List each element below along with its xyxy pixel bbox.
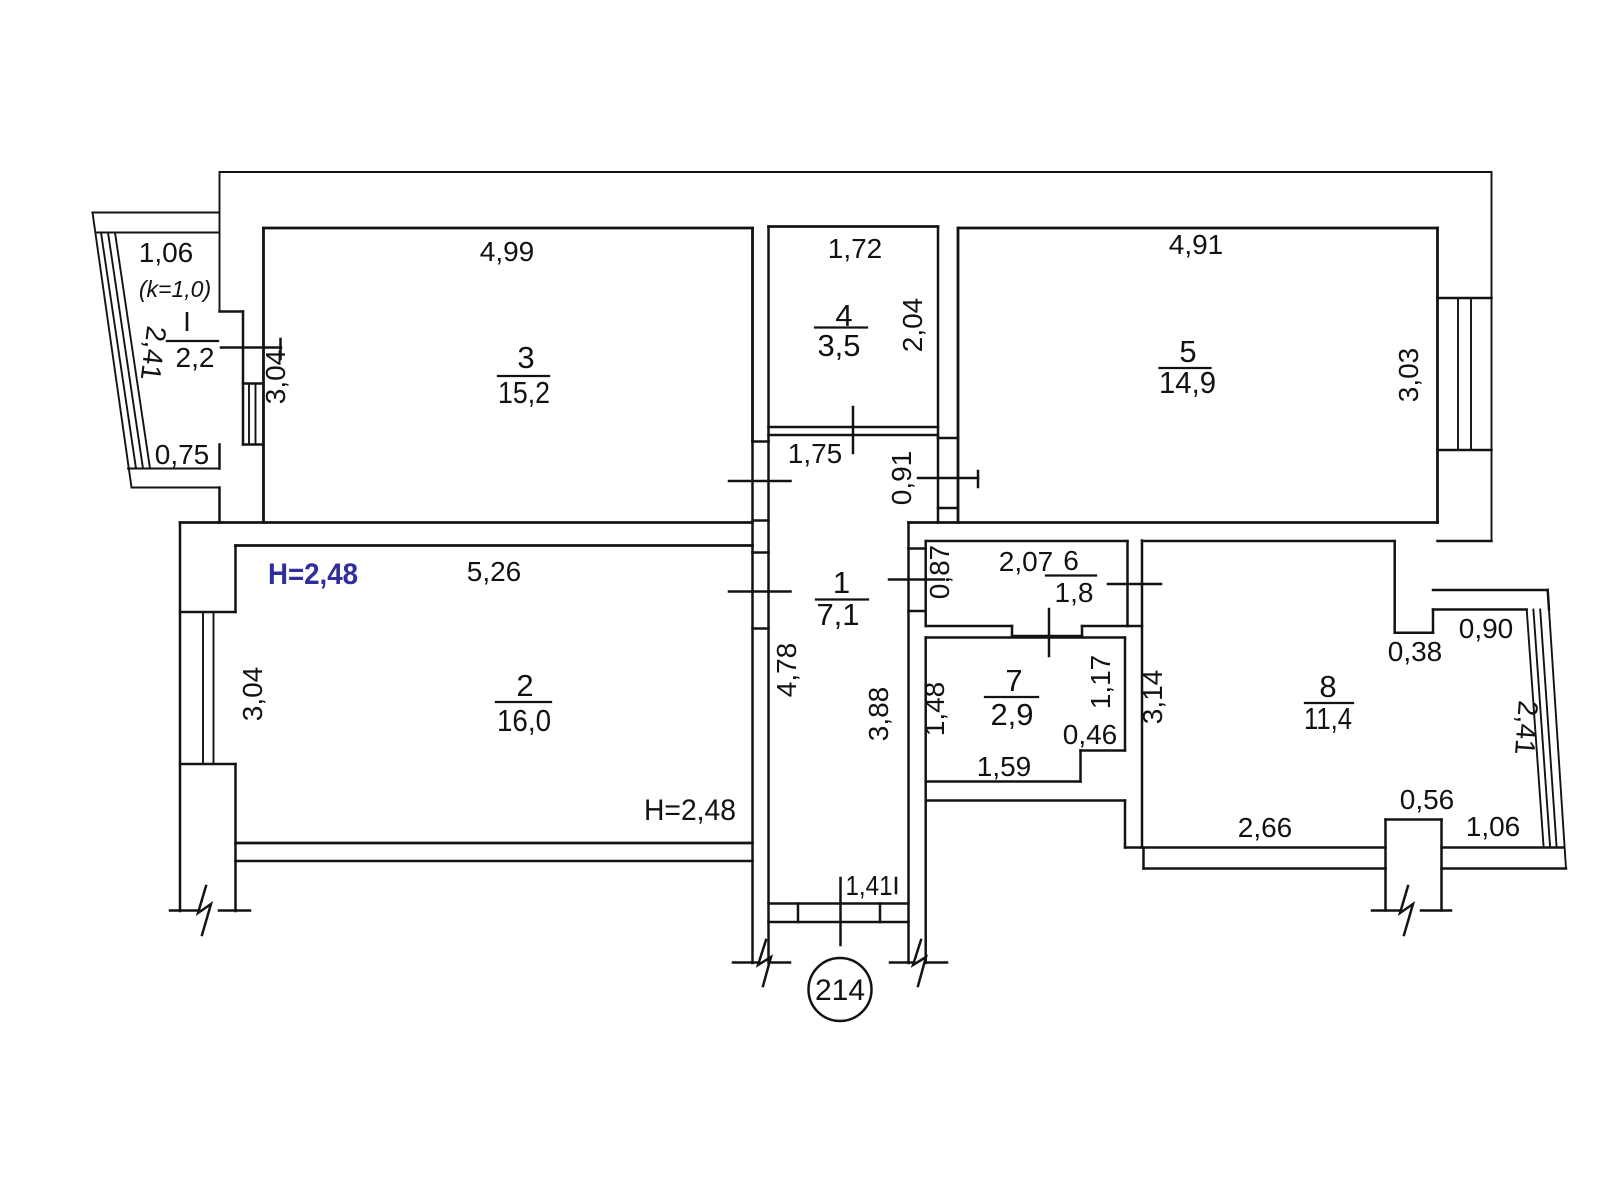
- wire wall x938 door D5 side: [937, 438, 940, 523]
- wire room7 notch top: [1081, 749, 1126, 752]
- svg-text:4,91: 4,91: [1169, 229, 1224, 260]
- svg-text:7: 7: [1005, 663, 1022, 698]
- wire corridor bottom wall upper line: [769, 902, 909, 905]
- svg-text:4,78: 4,78: [771, 643, 802, 698]
- wire room7 fraction bar: [985, 696, 1038, 698]
- wire door D4 tick: [852, 407, 855, 453]
- wire room8 bottom band lower right: [1442, 867, 1567, 870]
- wire room7 left wall and below: [924, 638, 927, 964]
- svg-text:I: I: [183, 306, 191, 337]
- wire wall x768 door D2 side: [767, 442, 770, 553]
- svg-text:0,46: 0,46: [1063, 719, 1118, 750]
- svg-text:1,8: 1,8: [1055, 577, 1094, 608]
- wire window W2 bottom sill: [180, 763, 236, 766]
- wire window W5 top sill: [1438, 297, 1492, 300]
- node balcony I (upper-left): [93, 213, 220, 488]
- wire room8 fraction bar: [1305, 702, 1353, 704]
- wire room2 fraction bar: [496, 701, 551, 703]
- svg-text:5: 5: [1179, 334, 1196, 369]
- svg-text:0,56: 0,56: [1400, 784, 1455, 815]
- wire window W5 glazing 2: [1470, 298, 1472, 450]
- wire balcony top inner line: [97, 232, 220, 234]
- svg-text:1: 1: [833, 565, 850, 600]
- svg-text:3,04: 3,04: [260, 350, 291, 405]
- node room8 and duct: [1108, 541, 1566, 936]
- wire break zigzag bottom-left: [198, 886, 211, 935]
- wire room4 bottom partition lower line: [769, 434, 939, 437]
- wire corridor right wall: [907, 523, 910, 964]
- wire window W1 glazing 2: [255, 384, 257, 445]
- wire window W2 glazing 1: [202, 612, 204, 764]
- wire left outer wall low: [218, 488, 221, 523]
- wire entrance door tick: [839, 878, 842, 945]
- wire room8 bottom band left closure: [1142, 848, 1145, 869]
- wire room6 bottom recess right: [1081, 626, 1084, 636]
- svg-text:1,48: 1,48: [919, 682, 950, 737]
- svg-text:1,06: 1,06: [1466, 811, 1521, 842]
- node balcony door and window in left wall: [220, 312, 282, 445]
- wire room8 bottom wall right segment: [1442, 846, 1564, 849]
- svg-text:2,41: 2,41: [135, 324, 172, 382]
- wire room6 right wall: [1126, 541, 1129, 626]
- wire room6 bottom recess left: [1011, 626, 1014, 636]
- wire top outer wall: [220, 171, 1492, 173]
- wire door D8 tick: [1048, 609, 1051, 656]
- wire window W1 glazing 1: [248, 384, 250, 445]
- wire door D5 jamb top: [938, 437, 958, 440]
- svg-text:3,03: 3,03: [1393, 348, 1424, 403]
- wire room2 bottom wall: [236, 842, 753, 845]
- wire balcony door tick: [221, 346, 281, 349]
- wire room5 left wall: [957, 228, 960, 523]
- wire left outer wall upper: [219, 172, 221, 312]
- svg-text:2,41: 2,41: [1509, 699, 1544, 756]
- wire wall x752 door D3 side and lower: [751, 553, 754, 964]
- svg-text:3,88: 3,88: [863, 687, 894, 742]
- svg-text:2: 2: [516, 668, 533, 703]
- wire window W1 bottom sill: [243, 443, 263, 446]
- wire right balcony band top: [1433, 589, 1548, 592]
- wire corridor bottom wall lower line: [769, 921, 909, 924]
- wire right balcony band bottom: [1433, 608, 1527, 611]
- wire entrance door jamb left: [797, 904, 800, 923]
- svg-text:H=2,48: H=2,48: [268, 558, 358, 591]
- wire vestibule bottom line: [909, 610, 926, 613]
- wire room6 top wall: [926, 540, 1128, 543]
- wire room4 right wall: [937, 228, 940, 438]
- wire balcony glazing line 1: [101, 233, 136, 469]
- svg-text:0,87: 0,87: [924, 545, 955, 600]
- svg-text:3,5: 3,5: [817, 328, 860, 363]
- wire duct bottom: [1395, 631, 1433, 634]
- wire balcony top outer line: [93, 212, 220, 214]
- wire room8 bottom band lower left: [1144, 867, 1386, 870]
- svg-text:2,9: 2,9: [990, 697, 1033, 732]
- wire room2 bottom wall lower line: [236, 860, 753, 863]
- wire window W5 glazing 1: [1457, 298, 1459, 450]
- wire right balcony glazing 1: [1527, 610, 1544, 846]
- wire window W2 glazing 2: [213, 612, 215, 764]
- wire door D5 tick: [918, 477, 978, 480]
- wire room7 notch left: [1079, 751, 1082, 782]
- wire room6 fraction bar: [1046, 574, 1096, 576]
- wire door D2 tick: [729, 480, 791, 483]
- wire wall line below room7: [926, 799, 1125, 802]
- node room5 and door D5: [909, 228, 1492, 523]
- wire room2 left wall upper: [234, 546, 237, 613]
- wire balcony door tick end serif: [279, 339, 282, 359]
- node corridor 1 lower part and entrance: [733, 523, 947, 1022]
- wire break zigzag bottom-right: [1400, 886, 1413, 935]
- wire room6 bottom recess line: [1012, 635, 1082, 638]
- wire room8 bottom wall left segment: [1125, 846, 1386, 849]
- wire door D3 jamb bottom: [753, 627, 769, 630]
- svg-text:0,90: 0,90: [1459, 613, 1514, 644]
- wire room3 fraction bar: [498, 375, 549, 377]
- wire chimney notch top: [1386, 818, 1442, 821]
- wire right balcony glazing 2: [1533, 610, 1550, 846]
- node apartment number circle 214: [809, 958, 872, 1021]
- wire door jamb vertical: [242, 312, 245, 445]
- wire room4 top wall: [769, 225, 939, 228]
- wire balcony bottom inner line: [128, 468, 220, 470]
- svg-text:2,2: 2,2: [176, 342, 215, 373]
- svg-text:16,0: 16,0: [497, 703, 551, 738]
- wire room4 bottom partition upper line: [769, 426, 939, 429]
- wire door D6 tick: [889, 578, 944, 581]
- svg-text:4,99: 4,99: [480, 236, 535, 267]
- node room4: [769, 228, 939, 453]
- wire chimney notch right: [1440, 820, 1443, 911]
- svg-text:1,41: 1,41: [846, 870, 893, 901]
- wire chimney notch left: [1384, 820, 1387, 911]
- wire room6 bottom wall right part: [1082, 625, 1128, 628]
- wire left outer wall lower: [179, 523, 182, 912]
- wire break zigzag stair right: [913, 940, 926, 986]
- wire door D2 jamb top: [753, 440, 769, 443]
- wire room5 top wall: [958, 227, 1438, 230]
- svg-text:1,72: 1,72: [828, 233, 883, 264]
- wire step down to room8 bottom: [1124, 801, 1127, 848]
- svg-text:214: 214: [815, 974, 865, 1007]
- svg-text:5,26: 5,26: [467, 556, 522, 587]
- wire duct left: [1393, 541, 1396, 633]
- wire room5 bottom wall: [909, 521, 1438, 524]
- wire corridor fraction bar: [816, 598, 868, 600]
- wire right balcony outer edge: [1549, 610, 1566, 869]
- wire room2 left wall lower: [234, 764, 237, 911]
- svg-text:1,75: 1,75: [788, 438, 843, 469]
- svg-text:8: 8: [1319, 669, 1336, 704]
- wire left outer wall mid: [218, 445, 221, 469]
- svg-text:0,38: 0,38: [1388, 636, 1443, 667]
- wire right balcony band right closure: [1548, 590, 1549, 610]
- wire entrance door jamb right: [879, 904, 882, 923]
- wire door D5 tick end serif: [977, 471, 980, 487]
- wire wall x768 upper (room4 left): [767, 228, 770, 442]
- wire break line bottom-left: [170, 909, 197, 912]
- wire right outer wall: [1491, 172, 1493, 541]
- wire room6 left wall: [924, 541, 927, 626]
- node rooms 6 and 7 block: [926, 541, 1128, 963]
- svg-text:1,59: 1,59: [977, 751, 1032, 782]
- wire door jamb top: [220, 310, 244, 313]
- wire room3 right wall upper: [751, 228, 754, 442]
- svg-text:2,04: 2,04: [897, 298, 928, 353]
- wire dim 1,41 end serif: [895, 878, 898, 893]
- wire door D7 tick: [1108, 583, 1161, 586]
- wire balcony fraction bar: [167, 340, 218, 342]
- wire break line stair right arm: [890, 961, 912, 964]
- wire room3 bottom wall line: [180, 521, 753, 524]
- svg-text:14,9: 14,9: [1159, 365, 1216, 400]
- wire duct right: [1432, 610, 1435, 633]
- wire wall segment under right outer wall: [1438, 540, 1492, 543]
- wire vestibule top line: [909, 547, 926, 550]
- wire door D3 tick: [729, 590, 791, 593]
- wire room3 top wall: [264, 227, 753, 230]
- wire break zigzag stair left: [758, 940, 771, 986]
- wire break line bottom-right: [1372, 909, 1399, 912]
- wire balcony glazing line 2: [108, 233, 143, 469]
- wire room7 bottom wall: [926, 780, 1081, 783]
- svg-text:0,91: 0,91: [886, 451, 917, 506]
- wire balcony glazing line 3: [115, 233, 150, 469]
- svg-text:3,14: 3,14: [1137, 670, 1168, 725]
- wire door D3 jamb top: [753, 551, 769, 554]
- node corridor wall between rooms 3,2 and corridor 1: [729, 228, 791, 963]
- wire balcony slanted outer edge: [93, 213, 132, 488]
- wire room6-room8 channel right (room8 left wall): [1141, 541, 1144, 848]
- svg-text:11,4: 11,4: [1304, 701, 1352, 736]
- node room2 and left lower wall: [170, 523, 753, 936]
- wire door D2 jamb bottom: [753, 519, 769, 522]
- svg-text:2,07: 2,07: [999, 546, 1054, 577]
- wire room7 top wall: [926, 636, 1125, 639]
- node room3 box: [180, 228, 753, 523]
- wire channel bottom: [1128, 625, 1143, 628]
- svg-text:1,06: 1,06: [139, 237, 194, 268]
- wire room4 fraction bar: [815, 326, 867, 328]
- wire window W1 top sill: [243, 382, 263, 385]
- svg-text:6: 6: [1063, 545, 1079, 576]
- svg-text:3: 3: [517, 340, 534, 375]
- wire balcony bottom outer line: [132, 487, 220, 489]
- wire room3 left wall: [262, 228, 265, 523]
- wire room5 fraction bar: [1160, 367, 1211, 369]
- svg-text:(k=1,0): (k=1,0): [139, 276, 211, 302]
- svg-text:3,04: 3,04: [237, 667, 268, 722]
- wire room2 top wall: [236, 544, 753, 547]
- svg-text:0,75: 0,75: [155, 439, 210, 470]
- wire wall x752 door D2 side: [751, 442, 754, 553]
- svg-text:7,1: 7,1: [816, 597, 859, 632]
- wire window W2 top sill: [180, 611, 236, 614]
- wire break line stair left arm: [733, 961, 757, 964]
- wire room7 right wall: [1124, 638, 1127, 751]
- svg-text:H=2,48: H=2,48: [644, 794, 736, 827]
- wire right balcony glazing 3: [1540, 610, 1556, 846]
- svg-text:15,2: 15,2: [498, 375, 550, 410]
- wire room6 top continuation to room8: [1142, 540, 1395, 543]
- wire wall x768 door D3 side and lower: [767, 553, 770, 964]
- wire room6 bottom wall left part: [926, 625, 1012, 628]
- wire room5 right wall: [1436, 228, 1439, 523]
- wire window W5 bottom sill: [1438, 449, 1492, 452]
- svg-text:2,66: 2,66: [1238, 812, 1293, 843]
- wire door D5 jamb bottom: [938, 507, 958, 510]
- svg-text:1,17: 1,17: [1085, 655, 1116, 710]
